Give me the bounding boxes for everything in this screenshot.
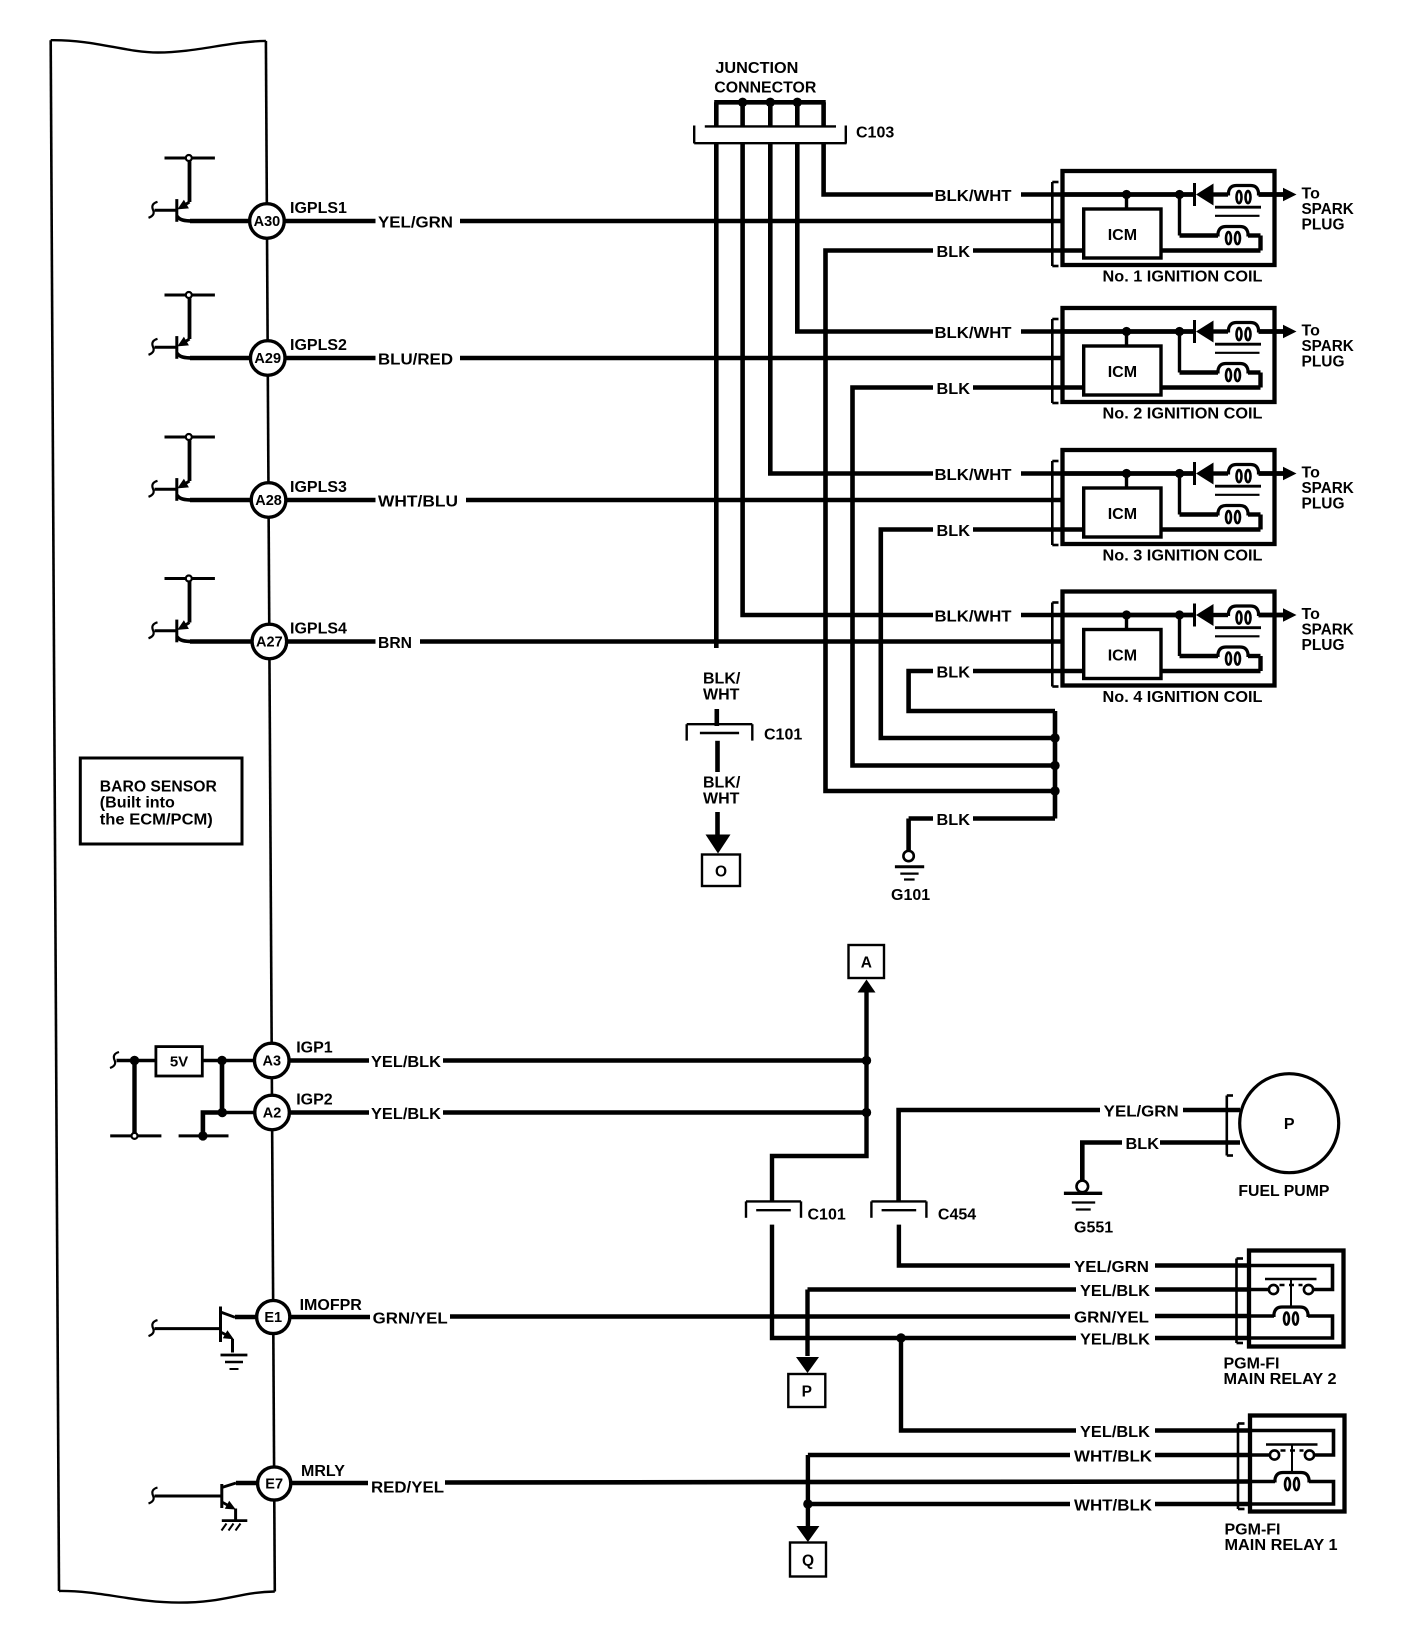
wire IGPLS1 YEL/GRN to No.1 ignition coil <box>190 215 1063 232</box>
svg-text:WHT: WHT <box>703 791 740 808</box>
svg-text:MRLY: MRLY <box>301 1463 345 1480</box>
svg-text:JUNCTION: JUNCTION <box>715 60 798 77</box>
svg-text:A29: A29 <box>254 351 281 367</box>
svg-text:(Built into: (Built into <box>100 794 175 811</box>
wire YEL/BLK (to PGM-FI main relay 1) <box>901 1338 1250 1441</box>
transistor Q3 (IGPLS3 driver) <box>149 434 215 501</box>
wire MRLY RED/YEL (to relay 1 coil) <box>236 1480 1250 1497</box>
primary winding (coil 4) <box>1214 613 1229 617</box>
svg-text:O: O <box>715 864 727 881</box>
svg-text:BLK/WHT: BLK/WHT <box>935 609 1012 626</box>
connector bracket (coil 2) <box>1051 319 1054 403</box>
node Q (page reference) <box>790 1543 826 1577</box>
svg-text:SPARK: SPARK <box>1302 621 1355 638</box>
ICM box (coil 1) <box>1084 209 1161 258</box>
wire BLK from No.3 ignition coil <box>881 523 1063 738</box>
relay 1 connector bracket <box>1237 1424 1240 1510</box>
svg-text:YEL/BLK: YEL/BLK <box>371 1054 441 1071</box>
ICM box (coil 3) <box>1084 488 1161 537</box>
relay 1 switch feed <box>1250 1431 1334 1456</box>
svg-text:ICM: ICM <box>1108 506 1137 523</box>
wire BLK internal (coil 1) <box>1063 248 1261 252</box>
svg-text:CONNECTOR: CONNECTOR <box>714 79 816 96</box>
svg-text:IGPLS4: IGPLS4 <box>290 621 347 638</box>
svg-text:No. 2 IGNITION COIL: No. 2 IGNITION COIL <box>1103 405 1263 422</box>
internal rail right (IGP2 tap) <box>179 1061 254 1141</box>
node A30 (ECM pin) <box>250 200 347 238</box>
node A (page reference) <box>849 945 885 993</box>
wire BLK internal (coil 2) <box>1063 385 1261 389</box>
connector C103 <box>694 125 894 144</box>
svg-text:BLK: BLK <box>937 665 971 682</box>
diode (coil 1) <box>1193 183 1196 206</box>
connector C101 (bottom) <box>746 1201 846 1223</box>
transistor Q5 (IMOFPR driver) <box>149 1307 236 1353</box>
wire BLK (fuel pump to G551) <box>1082 1136 1240 1181</box>
relay 1 coil <box>1250 1480 1275 1484</box>
svg-text:PGM-FI: PGM-FI <box>1225 1522 1281 1539</box>
node A28 (ECM pin) <box>251 479 347 517</box>
svg-text:IGP1: IGP1 <box>296 1040 333 1057</box>
secondary winding feed (coil 3) <box>1178 474 1181 515</box>
internal rail left (with open-circle tap) <box>110 1061 161 1139</box>
svg-text:GRN/YEL: GRN/YEL <box>1074 1310 1149 1327</box>
svg-text:YEL/BLK: YEL/BLK <box>371 1106 441 1123</box>
svg-text:BLK/WHT: BLK/WHT <box>935 325 1012 342</box>
svg-text:PLUG: PLUG <box>1302 637 1345 654</box>
primary circuit wire (coil 4) <box>1063 613 1195 618</box>
svg-text:BLK: BLK <box>1126 1136 1160 1153</box>
svg-text:A: A <box>861 955 872 972</box>
connector C101 (engine harness, top) <box>687 724 803 743</box>
svg-text:IGP2: IGP2 <box>296 1092 333 1109</box>
wire BLK/WHT (junction to C101) <box>703 143 741 726</box>
svg-text:BLK: BLK <box>937 381 971 398</box>
svg-text:P: P <box>802 1384 812 1401</box>
wire YEL/BLK bus (A to C101 to relays) <box>772 991 871 1201</box>
node A3 (ECM pin) <box>254 1040 332 1078</box>
svg-text:P: P <box>1284 1116 1295 1133</box>
svg-text:BLK: BLK <box>937 812 971 829</box>
wire YEL/GRN (relay to fuel pump) <box>899 1104 1240 1202</box>
secondary winding feed (coil 1) <box>1178 195 1181 236</box>
arrow to spark plug (coil 4) <box>1275 613 1285 618</box>
wire YEL/GRN (C454 to relay 2) <box>899 1225 1249 1276</box>
wire BLK collector to ground <box>909 711 1060 851</box>
wire BLK from No.2 ignition coil <box>853 381 1063 766</box>
transistor Q6 (MRLY driver) <box>149 1483 237 1520</box>
wire IGP1 YEL/BLK <box>289 1054 867 1071</box>
connector bracket (coil 4) <box>1051 603 1054 687</box>
svg-text:A30: A30 <box>254 214 281 230</box>
ICM box (coil 2) <box>1084 346 1161 395</box>
diode (coil 2) <box>1193 320 1196 343</box>
svg-text:G101: G101 <box>891 887 930 904</box>
ground G101 <box>891 851 930 904</box>
No. 3 ignition coil assembly <box>1052 450 1354 564</box>
svg-text:ICM: ICM <box>1108 648 1137 665</box>
svg-text:C103: C103 <box>856 125 894 142</box>
primary winding (coil 3) <box>1214 471 1229 475</box>
connector bracket (coil 3) <box>1051 461 1054 545</box>
relay 2 contacts <box>1249 1288 1269 1292</box>
svg-text:SPARK: SPARK <box>1302 201 1355 218</box>
PGM-FI main relay 1 <box>1225 1416 1345 1555</box>
svg-text:E1: E1 <box>264 1310 282 1326</box>
coil outer case 1 <box>1063 171 1275 265</box>
coil outer case 2 <box>1063 308 1275 402</box>
svg-text:YEL/BLK: YEL/BLK <box>1080 1283 1150 1300</box>
ICM box (coil 4) <box>1084 630 1161 679</box>
diode (coil 3) <box>1193 462 1196 485</box>
svg-text:ICM: ICM <box>1108 227 1137 244</box>
svg-text:WHT: WHT <box>703 687 740 704</box>
transformer core (coil 3) <box>1215 485 1261 488</box>
wire BLK from No.4 ignition coil <box>909 665 1063 712</box>
svg-text:SPARK: SPARK <box>1302 480 1355 497</box>
svg-text:To: To <box>1302 322 1321 339</box>
svg-text:C101: C101 <box>764 727 802 744</box>
svg-text:the ECM/PCM): the ECM/PCM) <box>100 811 213 828</box>
node A29 (ECM pin) <box>250 337 347 375</box>
node A2 (ECM pin) <box>255 1092 333 1130</box>
node A27 (ECM pin) <box>252 621 347 659</box>
5V regulator block <box>110 1047 254 1076</box>
svg-text:BLU/RED: BLU/RED <box>378 352 453 369</box>
transistor Q4 (IGPLS4 driver) <box>149 576 215 643</box>
svg-text:WHT/BLU: WHT/BLU <box>378 494 458 511</box>
svg-text:IGPLS2: IGPLS2 <box>290 337 347 354</box>
primary circuit wire (coil 2) <box>1063 329 1195 334</box>
svg-text:FUEL PUMP: FUEL PUMP <box>1238 1183 1329 1200</box>
wire IGPLS3 WHT/BLU to No.3 ignition coil <box>190 494 1063 511</box>
svg-text:5V: 5V <box>170 1053 188 1070</box>
No. 4 ignition coil assembly <box>1052 592 1354 706</box>
svg-text:BLK: BLK <box>937 523 971 540</box>
svg-text:To: To <box>1302 464 1321 481</box>
svg-text:PLUG: PLUG <box>1302 216 1345 233</box>
wire BLK/WHT to No.4 ignition coil <box>743 143 1063 625</box>
svg-text:YEL/GRN: YEL/GRN <box>1104 1104 1179 1121</box>
relay 1 contacts <box>1250 1453 1270 1457</box>
wire BLK internal (coil 4) <box>1063 669 1261 673</box>
relay 2 coil <box>1249 1314 1274 1318</box>
secondary winding feed (coil 4) <box>1178 615 1181 656</box>
svg-text:BARO SENSOR: BARO SENSOR <box>100 778 217 795</box>
wire WHT/BLK (relay 1 switch, upper) <box>808 1449 1250 1466</box>
connector bracket (coil 1) <box>1051 182 1054 266</box>
coil outer case 3 <box>1063 450 1275 544</box>
svg-text:MAIN RELAY 2: MAIN RELAY 2 <box>1224 1371 1337 1388</box>
svg-text:No. 4 IGNITION COIL: No. 4 IGNITION COIL <box>1103 689 1263 706</box>
node P (page reference) <box>788 1374 825 1407</box>
svg-text:To: To <box>1302 185 1321 202</box>
svg-text:IGPLS3: IGPLS3 <box>290 479 347 496</box>
transformer core (coil 4) <box>1215 626 1261 629</box>
svg-text:IMOFPR: IMOFPR <box>300 1297 363 1314</box>
svg-text:A27: A27 <box>256 635 283 651</box>
wire YEL/BLK (relay 2 to P page reference) <box>796 1283 1249 1373</box>
svg-text:ICM: ICM <box>1108 364 1137 381</box>
wire BLK/WHT to No.3 ignition coil <box>770 143 1062 484</box>
svg-text:A2: A2 <box>263 1106 282 1122</box>
svg-text:G551: G551 <box>1074 1219 1113 1236</box>
svg-text:BLK/: BLK/ <box>703 775 741 792</box>
fuel pump motor <box>1238 1074 1338 1200</box>
svg-text:E7: E7 <box>265 1477 283 1493</box>
node O (page reference) <box>702 855 740 887</box>
svg-text:WHT/BLK: WHT/BLK <box>1074 1498 1152 1515</box>
svg-text:MAIN RELAY 1: MAIN RELAY 1 <box>1225 1537 1338 1554</box>
relay 1 case <box>1250 1416 1345 1512</box>
relay 2 case <box>1249 1251 1344 1347</box>
wire BLK/WHT (C101 to O) <box>703 741 741 854</box>
wire YEL/BLK (C101 to PGM-FI main relay 2) <box>772 1225 1249 1349</box>
transformer core (coil 1) <box>1215 206 1261 209</box>
svg-text:YEL/GRN: YEL/GRN <box>1074 1259 1149 1276</box>
svg-text:PLUG: PLUG <box>1302 353 1345 370</box>
wire BLK from No.1 ignition coil <box>826 244 1063 791</box>
BARO sensor label box <box>80 758 242 844</box>
svg-text:Q: Q <box>802 1553 814 1570</box>
svg-text:A28: A28 <box>255 493 282 509</box>
transistor Q2 (IGPLS2 driver) <box>149 292 215 359</box>
fuel pump connector bracket <box>1227 1096 1233 1156</box>
svg-text:No. 3 IGNITION COIL: No. 3 IGNITION COIL <box>1103 547 1263 564</box>
svg-text:YEL/GRN: YEL/GRN <box>378 215 453 232</box>
ground (E7 emitter, chassis) <box>222 1521 248 1531</box>
wire IMOFPR GRN/YEL (to relay 2 coil) <box>235 1310 1249 1328</box>
PGM-FI main relay 2 <box>1224 1251 1344 1389</box>
svg-text:No. 1 IGNITION COIL: No. 1 IGNITION COIL <box>1103 268 1263 285</box>
svg-text:GRN/YEL: GRN/YEL <box>373 1311 448 1328</box>
svg-text:C454: C454 <box>938 1206 976 1223</box>
No. 2 ignition coil assembly <box>1052 308 1354 422</box>
svg-text:RED/YEL: RED/YEL <box>371 1480 444 1497</box>
primary winding (coil 2) <box>1214 329 1229 333</box>
secondary winding feed (coil 2) <box>1178 332 1181 373</box>
connector C454 <box>871 1201 976 1223</box>
primary circuit wire (coil 3) <box>1063 471 1195 476</box>
svg-text:IGPLS1: IGPLS1 <box>290 200 347 217</box>
primary circuit wire (coil 1) <box>1063 192 1195 197</box>
arrow to spark plug (coil 2) <box>1275 329 1285 334</box>
svg-text:BRN: BRN <box>378 635 412 652</box>
wire BLK/WHT to No.1 ignition coil <box>824 143 1063 205</box>
svg-text:WHT/BLK: WHT/BLK <box>1074 1449 1152 1466</box>
arrow to spark plug (coil 3) <box>1275 471 1285 476</box>
transformer core (coil 2) <box>1215 343 1261 346</box>
svg-text:A3: A3 <box>262 1054 281 1070</box>
ground G551 <box>1064 1181 1113 1237</box>
relay 2 switch feed <box>1249 1266 1333 1290</box>
svg-text:BLK/WHT: BLK/WHT <box>935 188 1012 205</box>
No. 1 ignition coil assembly <box>1052 171 1354 285</box>
transistor Q1 (IGPLS1 driver) <box>149 155 215 222</box>
svg-text:BLK/: BLK/ <box>703 671 741 688</box>
ground (E1 emitter) <box>221 1355 248 1369</box>
wire WHT/BLK (relay 1 switch, lower, to Q) <box>796 1455 1250 1542</box>
svg-text:PGM-FI: PGM-FI <box>1224 1356 1280 1373</box>
diode (coil 4) <box>1193 604 1196 627</box>
arrow to spark plug (coil 1) <box>1275 192 1285 197</box>
svg-text:YEL/BLK: YEL/BLK <box>1080 1332 1150 1349</box>
wire IGP2 YEL/BLK <box>289 1106 867 1123</box>
svg-text:PLUG: PLUG <box>1302 495 1345 512</box>
svg-text:To: To <box>1302 606 1321 623</box>
node E7 (ECM pin) <box>258 1463 346 1500</box>
wire IGPLS2 BLU/RED to No.2 ignition coil <box>190 352 1063 369</box>
svg-text:BLK: BLK <box>937 244 971 261</box>
primary winding (coil 1) <box>1214 192 1229 196</box>
coil outer case 4 <box>1063 592 1275 686</box>
ECM/PCM boundary box (torn edges) <box>51 40 275 1602</box>
wire IGPLS4 BRN to No.4 ignition coil <box>190 635 1063 652</box>
relay 2 connector bracket <box>1235 1259 1238 1344</box>
svg-text:BLK/WHT: BLK/WHT <box>935 467 1012 484</box>
junction connector <box>714 60 826 127</box>
wire BLK internal (coil 3) <box>1063 527 1261 531</box>
svg-text:C101: C101 <box>808 1206 846 1223</box>
wire BLK/WHT to No.2 ignition coil <box>797 143 1062 342</box>
svg-text:YEL/BLK: YEL/BLK <box>1080 1424 1150 1441</box>
svg-text:SPARK: SPARK <box>1302 338 1355 355</box>
node E1 (ECM pin) <box>257 1297 363 1334</box>
